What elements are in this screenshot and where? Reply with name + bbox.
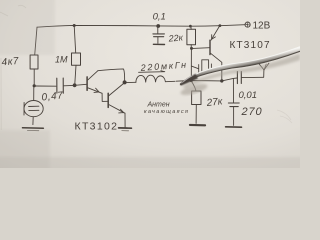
svg-text:27к: 27к bbox=[205, 96, 224, 109]
transistor Q1 collector bbox=[88, 71, 98, 80]
wire: R1 to node bbox=[33, 69, 35, 85]
node: collector junction bbox=[220, 79, 223, 82]
probe rod bbox=[180, 46, 300, 85]
wire: C1 to base node bbox=[64, 84, 73, 86]
antenna W1 bbox=[263, 70, 265, 78]
paper bottom edge shading bbox=[0, 157, 310, 173]
svg-text:270: 270 bbox=[241, 106, 263, 118]
wire: rail to C2 bbox=[157, 27, 159, 34]
svg-text:0,1: 0,1 bbox=[153, 12, 166, 23]
probe top highlight bbox=[182, 47, 301, 84]
wire: C4 to ground bbox=[233, 107, 235, 125]
wire: crystal to collector line bbox=[212, 68, 222, 70]
resistor R3 22к bbox=[187, 29, 196, 44]
wire: junction to Q3 base bbox=[193, 47, 210, 50]
wire: Q2 emitter to ground bbox=[124, 113, 126, 127]
microphone BM1: stub bbox=[33, 88, 35, 101]
svg-text:1М: 1М bbox=[55, 54, 68, 64]
wire: antenna node down to C4 bbox=[232, 78, 234, 102]
wire: C3 to antenna bbox=[242, 76, 264, 78]
paper background bbox=[0, 0, 300, 168]
transistor Q1 КТ3102 base bar bbox=[86, 77, 88, 90]
transistor Q2 emitter with arrow bbox=[109, 105, 125, 114]
ground: R4 bbox=[190, 124, 205, 127]
microphone BM1 body bbox=[24, 101, 43, 117]
paper corner shading bbox=[0, 0, 55, 55]
node: mic/R1 junction bbox=[33, 84, 36, 87]
node: collector/coil junction bbox=[123, 80, 127, 84]
svg-text:КТ3102: КТ3102 bbox=[75, 121, 118, 133]
core line above L1 bbox=[139, 71, 165, 73]
probe dark tip bbox=[180, 74, 198, 86]
wire: junction up to 22к node bbox=[190, 48, 192, 80]
pencil smudges bbox=[0, 5, 292, 130]
capacitor C4 270 plates bbox=[228, 102, 239, 104]
transistor Q2 collector bbox=[109, 83, 124, 96]
node: 22к/base junction bbox=[190, 47, 193, 50]
crystal X1 body bbox=[202, 60, 209, 73]
wire: node to C1 bbox=[36, 85, 56, 87]
ground: C2 bbox=[153, 43, 164, 45]
wire: base node to Q1 bbox=[77, 83, 87, 86]
node: rail/R2 dot bbox=[73, 24, 76, 27]
wire: tank line to right bbox=[176, 78, 237, 81]
transistor Q3 collector bbox=[211, 53, 222, 80]
wire: mic to ground bbox=[32, 117, 34, 125]
resistor R2 1М bbox=[72, 53, 81, 65]
ground: C4 bbox=[226, 126, 242, 128]
wire: Q1 collector to tank node bbox=[98, 69, 125, 82]
crystal X1 left plate bbox=[198, 65, 200, 73]
svg-text:0,01: 0,01 bbox=[239, 90, 258, 101]
node: 27к junction bbox=[190, 79, 193, 82]
resistor R4 27к: stub bbox=[191, 81, 196, 91]
wire: C2 to ground bbox=[157, 37, 159, 43]
microphone BM1 inner lines bbox=[29, 105, 39, 107]
wire: +12V top rail bbox=[37, 25, 245, 28]
wire: rail to R2 bbox=[74, 26, 76, 53]
transistor Q3 emitter from rail with arrow bbox=[211, 26, 220, 41]
crystal X1 right plate bbox=[210, 64, 212, 73]
transistor Q2 КТ3102 base bar bbox=[107, 93, 109, 107]
node: base junction bbox=[73, 83, 77, 87]
svg-text:12В: 12В bbox=[253, 20, 271, 31]
wire: rail to 22к bbox=[190, 26, 192, 29]
svg-text:4к7: 4к7 bbox=[1, 56, 19, 68]
node: rail/emitter dot bbox=[219, 24, 222, 27]
resistor R1 4к7 bbox=[30, 55, 38, 69]
capacitor C2 plates bbox=[153, 33, 165, 35]
resistor R4 27к bbox=[192, 91, 201, 105]
svg-text:Антен: Антен bbox=[147, 102, 170, 109]
svg-text:0,47: 0,47 bbox=[41, 90, 64, 103]
capacitor C2 0,1: rail dot bbox=[156, 24, 160, 28]
svg-text:качающаяся: качающаяся bbox=[144, 109, 188, 115]
crystal X1: wire from bias node bbox=[191, 66, 198, 69]
capacitor C3 0,01 plates bbox=[236, 72, 238, 84]
wire: 22к to junction bbox=[190, 45, 192, 48]
node: rail/22к dot bbox=[189, 25, 192, 28]
probe shadow blob under tip bbox=[179, 82, 208, 97]
ground: Q2 emitter bbox=[119, 127, 132, 129]
wire: Q1 emitter to Q2 base bbox=[102, 93, 108, 101]
probe shadow band under rod bbox=[182, 54, 300, 90]
ground: mic bbox=[23, 127, 44, 129]
probe bottom edge bbox=[180, 51, 300, 84]
inductor L1 220мкГн bbox=[127, 81, 136, 83]
wire: R2 to base node bbox=[75, 65, 76, 84]
battery terminal +12В bbox=[245, 22, 250, 27]
microphone BM1 left bar bbox=[23, 103, 25, 116]
svg-text:22к: 22к bbox=[167, 32, 184, 43]
svg-text:КТ3107: КТ3107 bbox=[230, 40, 271, 51]
transistor Q1 emitter with arrow bbox=[88, 88, 102, 94]
wire: R4 to ground bbox=[195, 105, 197, 124]
transistor Q3 КТ3107 base bar bbox=[209, 40, 211, 54]
capacitor C1 0,47 bbox=[56, 78, 58, 93]
wire: rail to R1 bbox=[35, 27, 37, 55]
